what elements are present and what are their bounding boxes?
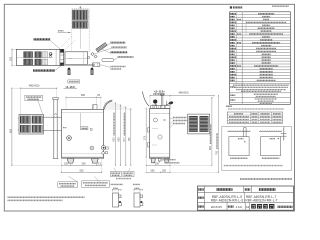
svg-text:<3~113>: <3~113> <box>65 85 76 89</box>
svg-text:550: 550 <box>151 170 156 173</box>
svg-text:615: 615 <box>113 137 116 142</box>
svg-text:250: 250 <box>9 56 12 61</box>
svg-text:663: 663 <box>118 137 121 142</box>
svg-text:550: 550 <box>80 170 85 173</box>
svg-text:A3: A3 <box>246 205 250 209</box>
svg-text:250: 250 <box>155 163 160 166</box>
svg-text:380: 380 <box>81 94 86 97</box>
svg-text:480(420): 480(420) <box>29 84 40 88</box>
svg-text:<3~113>: <3~113> <box>154 90 165 94</box>
svg-text:677: 677 <box>123 137 126 142</box>
svg-text:100: 100 <box>64 163 69 166</box>
svg-text:663: 663 <box>9 128 12 133</box>
svg-text:RBF-A80S2N-RR-L-S: RBF-A80S2N-RR-L-S <box>211 198 244 202</box>
svg-text:790: 790 <box>216 150 219 155</box>
svg-text:575: 575 <box>144 135 147 140</box>
svg-text:250: 250 <box>162 170 167 173</box>
svg-text:660: 660 <box>209 145 212 150</box>
svg-text:790: 790 <box>128 137 131 142</box>
svg-text:480(420): 480(420) <box>178 91 188 94</box>
svg-text:300: 300 <box>82 163 87 166</box>
svg-text:2016.05: 2016.05 <box>211 205 222 209</box>
svg-text:RBF-A80S2N-RR-L-T: RBF-A80S2N-RR-L-T <box>245 198 277 202</box>
svg-text:1:10(: 1:10( <box>236 205 243 209</box>
